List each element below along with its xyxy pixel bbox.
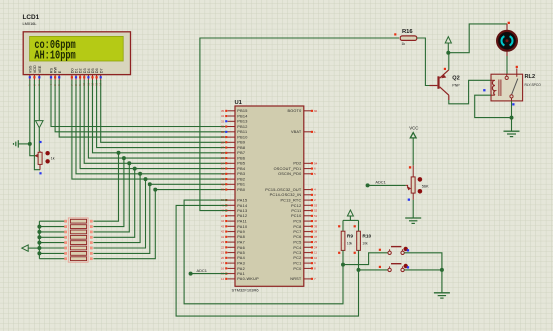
svg-text:R9: R9 — [347, 234, 353, 240]
svg-text:20: 20 — [221, 256, 224, 260]
junction pack bus — [37, 230, 41, 234]
wire pack element 3 to bus row — [94, 163, 130, 232]
relay contact NC — [506, 74, 508, 76]
junction bus tap — [133, 167, 137, 171]
junction pack bus — [37, 235, 41, 239]
svg-text:PC8: PC8 — [293, 225, 301, 229]
svg-text:VEE: VEE — [38, 65, 42, 73]
svg-text:PC5: PC5 — [293, 241, 301, 245]
resistor R10 10k — [354, 225, 356, 227]
svg-text:PC6: PC6 — [293, 235, 301, 239]
wire Q2 collector to relay coil — [449, 80, 491, 104]
wire pack element 8 to bus row — [94, 190, 156, 259]
LCD pin stubs with pin numbers 1-14 — [29, 75, 31, 81]
svg-text:PB0: PB0 — [237, 188, 245, 192]
svg-text:17: 17 — [221, 261, 224, 265]
svg-text:PA12: PA12 — [237, 214, 247, 218]
svg-text:56: 56 — [221, 167, 224, 171]
svg-text:RLY-SPCO: RLY-SPCO — [525, 83, 542, 87]
wire pack element 1 to bus row — [94, 153, 119, 221]
svg-text:BOOT0: BOOT0 — [288, 109, 302, 113]
junction pack bus — [37, 246, 41, 250]
svg-text:10: 10 — [314, 256, 317, 260]
svg-text:38: 38 — [314, 230, 317, 234]
svg-text:54: 54 — [314, 161, 317, 165]
svg-text:34: 34 — [221, 114, 224, 118]
red marker motor top — [508, 22, 510, 24]
svg-text:PA8: PA8 — [237, 235, 245, 239]
junction pack bus — [37, 251, 41, 255]
svg-text:21: 21 — [221, 251, 224, 255]
ground (below relay) — [504, 130, 520, 132]
svg-text:44: 44 — [221, 219, 224, 223]
svg-text:PA6: PA6 — [237, 246, 245, 250]
svg-text:16: 16 — [221, 267, 224, 271]
svg-text:PB6: PB6 — [237, 157, 245, 161]
wire pack element 7 to bus row — [94, 184, 150, 253]
svg-text:RL2: RL2 — [525, 74, 536, 80]
U1 right pins — [304, 110, 312, 112]
svg-text:24: 24 — [314, 245, 317, 249]
wire pack element 4 to bus row — [94, 169, 135, 238]
svg-text:PD2: PD2 — [293, 162, 301, 166]
wire D6 to U1 PB8 — [97, 80, 228, 148]
junction bus tap — [117, 151, 121, 155]
svg-text:OSCIN_PD0: OSCIN_PD0 — [278, 172, 301, 176]
svg-text:47: 47 — [221, 214, 224, 218]
motor M1 — [506, 24, 508, 31]
red marker relay NO pin — [516, 66, 518, 68]
svg-text:37: 37 — [314, 235, 317, 239]
wire relay common to ground — [511, 101, 513, 131]
wire VDD to pot bottom — [34, 80, 40, 170]
resistor pack element 5 — [64, 241, 67, 244]
U1 left pins PA15..PA0 — [228, 199, 236, 201]
pot RV1 ball top — [45, 151, 49, 155]
potentiometer RV1 1k (LCD contrast) — [39, 151, 41, 152]
svg-text:28: 28 — [221, 140, 224, 144]
svg-text:10k: 10k — [347, 241, 353, 245]
pot ball bottom — [418, 189, 423, 194]
svg-text:PC7: PC7 — [293, 230, 301, 234]
junction bus tap — [148, 182, 152, 186]
svg-text:PA11: PA11 — [237, 220, 247, 224]
svg-text:42: 42 — [221, 230, 224, 234]
U1 left pins PB15..PB0 — [228, 110, 236, 112]
svg-text:PC2: PC2 — [293, 256, 301, 260]
svg-text:22: 22 — [221, 245, 224, 249]
svg-text:OSCOUT_PD1: OSCOUT_PD1 — [274, 167, 302, 171]
svg-text:39: 39 — [221, 188, 224, 192]
svg-text:VCC: VCC — [409, 125, 418, 130]
wire D2 to U1 PB4 — [80, 80, 227, 169]
wire D5 to U1 PB7 — [93, 80, 228, 153]
wire Q2 emitter to VCC junction — [448, 53, 450, 70]
junction bus tap — [138, 172, 142, 176]
resistor pack element 6 — [64, 247, 67, 250]
svg-text:39: 39 — [314, 224, 317, 228]
svg-text:VBAT: VBAT — [291, 130, 302, 134]
wire R10 junction to button2 — [359, 269, 388, 271]
svg-text:26: 26 — [221, 151, 224, 155]
junction bus tap — [144, 177, 148, 181]
resistor pack element 3 — [64, 231, 67, 234]
ground (below pot) — [405, 217, 421, 219]
relay switch lever — [512, 79, 518, 95]
svg-text:R16: R16 — [402, 29, 413, 35]
wire RW to U1 PB11 — [55, 80, 227, 132]
blue marker — [39, 172, 41, 174]
node ADC1 wire end — [366, 183, 370, 187]
svg-text:14: 14 — [221, 277, 224, 281]
wire D4 to U1 PB6 — [88, 80, 227, 158]
svg-text:11: 11 — [314, 251, 317, 255]
svg-text:25: 25 — [221, 156, 224, 160]
push button 2 — [388, 268, 391, 271]
svg-text:1k: 1k — [51, 156, 55, 160]
svg-text:29: 29 — [221, 135, 224, 139]
svg-text:R10: R10 — [362, 234, 371, 240]
svg-text:33: 33 — [221, 119, 224, 123]
svg-text:PB7: PB7 — [237, 151, 245, 155]
node ADC1 wire end (U1) — [189, 272, 193, 276]
svg-text:PA3: PA3 — [237, 262, 245, 266]
svg-text:43: 43 — [221, 224, 224, 228]
svg-text:PB12: PB12 — [237, 125, 247, 129]
svg-text:VDD: VDD — [33, 65, 37, 73]
svg-text:VSS: VSS — [28, 65, 32, 73]
blue marker relay — [483, 89, 485, 91]
svg-text:41: 41 — [221, 177, 224, 181]
junction bus tap — [122, 156, 126, 160]
svg-text:PC12: PC12 — [291, 204, 301, 208]
potentiometer RV2 56K — [409, 166, 411, 168]
svg-text:51: 51 — [314, 214, 317, 218]
red marker R10 bottom — [354, 252, 356, 254]
svg-text:PB1: PB1 — [237, 183, 245, 187]
svg-text:PA2: PA2 — [237, 267, 245, 271]
svg-text:PB13: PB13 — [237, 120, 247, 124]
svg-text:PNP: PNP — [452, 83, 460, 87]
wire button1 right to ground bus — [404, 253, 442, 270]
red marker Q2 emitter — [444, 68, 446, 70]
svg-text:53: 53 — [314, 203, 317, 207]
svg-text:PB4: PB4 — [237, 167, 245, 171]
resistor pack element 1 — [64, 220, 67, 223]
svg-text:PC3: PC3 — [293, 251, 301, 255]
ground terminal arrow (left of pack) — [22, 245, 28, 251]
wire R9 bottom — [342, 250, 344, 264]
wire VEE down — [38, 80, 40, 120]
svg-text:PC0: PC0 — [293, 267, 301, 271]
wire R16 to Q2 base — [417, 38, 430, 86]
svg-text:1k: 1k — [402, 42, 406, 46]
svg-text:PC14-OSC32_IN: PC14-OSC32_IN — [270, 193, 302, 197]
power terminal VCC (R9 R10) — [347, 210, 353, 216]
svg-text:27: 27 — [221, 146, 224, 150]
svg-text:52: 52 — [314, 209, 317, 213]
ground (rotated, left of LCD) — [18, 143, 30, 145]
junction bus tap — [153, 188, 157, 192]
svg-text:PB15: PB15 — [237, 109, 247, 113]
svg-text:PB3: PB3 — [237, 172, 245, 176]
resistor pack element 2 — [64, 225, 67, 228]
svg-text:PA5: PA5 — [237, 251, 245, 255]
wire D1 to U1 PB3 — [76, 80, 228, 174]
svg-text:35: 35 — [221, 109, 224, 113]
svg-text:U1: U1 — [235, 100, 243, 106]
svg-text:AH:10ppm: AH:10ppm — [34, 49, 75, 63]
relay contact NO pin — [516, 68, 518, 76]
svg-text:PC4: PC4 — [293, 246, 301, 250]
wire D0 to U1 PB2 — [72, 80, 228, 179]
transistor Q2 PNP — [437, 76, 439, 89]
svg-text:ADC1: ADC1 — [375, 180, 385, 185]
svg-text:40: 40 — [221, 182, 224, 186]
wire VSS to contrast pot wiper — [30, 80, 37, 156]
wire VEE arrow to pot top — [38, 128, 41, 151]
resistor pack element 4 — [64, 236, 67, 239]
wire D7 to U1 PB9 — [101, 80, 228, 142]
junction R10/button2 — [357, 268, 361, 272]
resistor network common bus (left) — [38, 221, 40, 259]
svg-text:PC9: PC9 — [293, 220, 301, 224]
svg-text:PA0-WKUP: PA0-WKUP — [237, 277, 259, 281]
svg-text:PA15: PA15 — [237, 199, 247, 203]
LCD display LM016L body — [23, 32, 130, 75]
junction pack bus — [37, 225, 41, 229]
svg-text:PC10: PC10 — [291, 214, 301, 218]
power terminal VCC (Q2 emitter) — [445, 37, 451, 43]
pot ball top — [418, 177, 423, 182]
svg-text:10k: 10k — [362, 241, 368, 245]
push button 1 — [388, 251, 391, 254]
svg-text:42: 42 — [221, 172, 224, 176]
resistor R9 10k — [338, 225, 340, 227]
relay common contact — [510, 95, 513, 98]
svg-text:PA14: PA14 — [237, 204, 247, 208]
wire pack element 6 to bus row — [94, 179, 146, 248]
svg-text:NRST: NRST — [290, 277, 302, 281]
svg-text:LM016L: LM016L — [23, 21, 38, 26]
svg-text:PB14: PB14 — [237, 115, 247, 119]
resistor pack outline — [68, 218, 88, 262]
resistor pack element 8 — [64, 257, 67, 260]
wire R9 junction to button1 — [343, 253, 388, 265]
wire pack element 5 to bus row — [94, 174, 141, 243]
svg-text:41: 41 — [221, 235, 224, 239]
microcontroller U1 STM32F103R6 body — [235, 106, 304, 286]
relay coil — [491, 79, 494, 81]
svg-text:PA13: PA13 — [237, 209, 247, 213]
svg-text:LCD1: LCD1 — [23, 14, 40, 21]
svg-text:PB5: PB5 — [237, 162, 245, 166]
svg-text:PB9: PB9 — [237, 141, 245, 145]
resistor pack element 7 — [64, 252, 67, 255]
svg-text:PC1: PC1 — [293, 262, 301, 266]
svg-text:PB11: PB11 — [237, 130, 247, 134]
ground terminal arrow (below LCD) — [36, 121, 44, 128]
svg-text:PA9: PA9 — [237, 230, 245, 234]
svg-text:57: 57 — [221, 161, 224, 165]
svg-text:32: 32 — [221, 125, 224, 129]
wire pot bottom to ground — [412, 193, 414, 200]
svg-text:PA10: PA10 — [237, 225, 247, 229]
red marker R9 bottom — [338, 252, 340, 254]
svg-text:56K: 56K — [422, 183, 429, 188]
junction pack bus — [37, 241, 41, 245]
wire motor - to relay contact — [506, 56, 508, 76]
svg-text:PA1: PA1 — [237, 272, 245, 276]
relay RL2 RLY-SPCO body — [491, 74, 523, 101]
junction VSS/ground tap — [28, 142, 32, 146]
blue marker — [39, 141, 41, 143]
wire VCC junction to motor + — [448, 24, 507, 53]
wire button2 net to U1 PA14 — [176, 205, 358, 316]
wire button1 net to U1 PA15 — [184, 200, 343, 304]
svg-text:PB10: PB10 — [237, 136, 247, 140]
svg-text:PB2: PB2 — [237, 178, 245, 182]
svg-text:30: 30 — [221, 130, 224, 134]
svg-text:ADC1: ADC1 — [197, 268, 207, 273]
blue marker relay2 — [512, 103, 514, 105]
junction bus tap — [127, 161, 131, 165]
svg-text:25: 25 — [314, 240, 317, 244]
wire RS to U1 PB12 — [51, 80, 228, 127]
wire D3 to U1 PB5 — [84, 80, 227, 163]
svg-text:PC11: PC11 — [291, 209, 301, 213]
junction VCC/emitter/motor — [446, 51, 450, 55]
ground (below buttons) — [434, 292, 450, 294]
wire button2 right to ground bus — [404, 269, 442, 271]
svg-text:STM32F103R6: STM32F103R6 — [232, 288, 260, 293]
svg-text:PA4: PA4 — [237, 256, 245, 260]
svg-text:40: 40 — [314, 219, 317, 223]
wire E to U1 PB10 — [59, 80, 227, 137]
svg-text:PB8: PB8 — [237, 146, 245, 150]
svg-text:PC13_RTC: PC13_RTC — [280, 199, 301, 203]
junction buttons ground — [440, 268, 444, 272]
svg-text:60: 60 — [314, 109, 317, 113]
svg-text:PA7: PA7 — [237, 241, 245, 245]
wire pack element 2 to bus row — [94, 158, 124, 227]
wire R10 bottom — [358, 250, 360, 270]
wire relay coil bottom to ground junction — [475, 95, 512, 117]
blue marker pot — [408, 199, 410, 201]
junction relay ground — [510, 116, 514, 120]
svg-text:PC15-OSC32_OUT: PC15-OSC32_OUT — [265, 188, 302, 192]
pot RV1 ball bottom — [45, 159, 49, 163]
junction R9/button1 — [341, 263, 345, 267]
svg-text:23: 23 — [221, 240, 224, 244]
LCD green screen — [30, 36, 124, 61]
svg-text:D7: D7 — [99, 68, 103, 73]
svg-text:Q2: Q2 — [452, 76, 459, 82]
wire U1 PA13 to R16 (top route) — [200, 38, 399, 211]
